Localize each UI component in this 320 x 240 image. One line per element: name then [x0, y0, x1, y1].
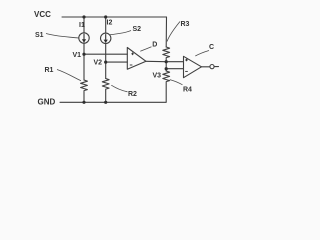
svg-text:R1: R1: [45, 67, 54, 74]
svg-text:V2: V2: [94, 60, 103, 67]
svg-text:R2: R2: [128, 91, 137, 98]
svg-text:GND: GND: [38, 98, 56, 107]
svg-text:V1: V1: [73, 52, 82, 59]
svg-text:VCC: VCC: [34, 10, 51, 19]
svg-text:V3: V3: [153, 73, 162, 80]
svg-text:R3: R3: [181, 21, 190, 28]
svg-text:S1: S1: [35, 32, 44, 39]
svg-text:I1: I1: [79, 22, 85, 29]
svg-text:C: C: [209, 44, 214, 51]
svg-text:S2: S2: [133, 26, 142, 33]
svg-text:D: D: [152, 42, 157, 49]
svg-text:I2: I2: [107, 20, 113, 27]
svg-text:R4: R4: [183, 87, 192, 94]
